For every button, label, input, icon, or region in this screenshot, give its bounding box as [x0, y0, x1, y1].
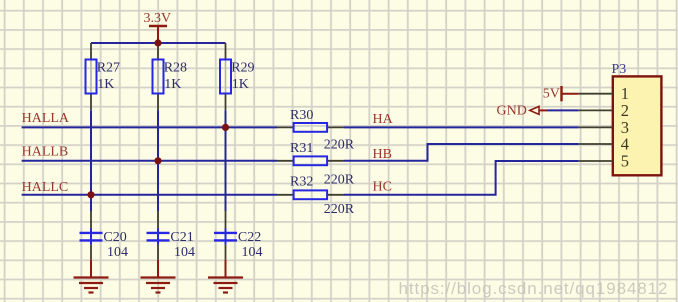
svg-text:HALLC: HALLC — [22, 180, 69, 195]
svg-text:104: 104 — [107, 245, 128, 260]
wire HA — [344, 126, 579, 128]
wire HALLC — [22, 194, 277, 196]
svg-text:P3: P3 — [612, 62, 627, 77]
junction dot HALLA/R29 — [222, 124, 229, 131]
resistor R30 — [277, 108, 355, 153]
svg-text:1K: 1K — [97, 77, 114, 92]
svg-text:220R: 220R — [324, 202, 355, 217]
pin stub 1 — [579, 93, 613, 95]
power label 3.3V — [144, 11, 172, 43]
pin stub 2 — [579, 109, 613, 111]
wire GND to pin2 — [547, 109, 579, 111]
svg-text:R31: R31 — [290, 141, 313, 156]
wire HB — [344, 144, 579, 161]
svg-text:104: 104 — [174, 245, 195, 260]
resistor R27 — [86, 43, 121, 110]
svg-text:C22: C22 — [238, 230, 261, 245]
svg-text:HA: HA — [373, 112, 394, 127]
junction dot HALLB/R28 — [154, 157, 161, 164]
svg-text:HALLB: HALLB — [22, 145, 69, 160]
power symbol GND arrow — [497, 104, 548, 119]
svg-text:5: 5 — [621, 152, 629, 171]
pin stub 3 — [579, 126, 613, 128]
wire HALLB — [22, 160, 277, 162]
wire column R29 — [225, 110, 227, 211]
junction dot HALLC/R27 — [87, 191, 94, 198]
wire HC — [344, 161, 579, 195]
svg-text:C20: C20 — [103, 230, 126, 245]
wire column R27 — [90, 110, 92, 211]
pin stub 5 — [579, 160, 613, 162]
svg-text:1K: 1K — [232, 77, 249, 92]
capacitor C22 — [214, 211, 263, 260]
ground C20 — [74, 260, 109, 293]
resistor R28 — [153, 47, 188, 111]
capacitor C21 — [147, 211, 196, 260]
ground C22 — [208, 260, 243, 293]
svg-text:R30: R30 — [290, 108, 313, 123]
svg-text:HC: HC — [373, 179, 392, 194]
svg-text:GND: GND — [497, 104, 527, 119]
svg-text:5V: 5V — [543, 86, 560, 101]
svg-text:R32: R32 — [290, 175, 313, 190]
svg-text:1K: 1K — [164, 77, 181, 92]
svg-text:HB: HB — [373, 147, 392, 162]
svg-text:C21: C21 — [170, 230, 193, 245]
pin stub 4 — [579, 143, 613, 145]
svg-text:220R: 220R — [324, 172, 355, 187]
svg-text:220R: 220R — [324, 137, 355, 152]
power label 5V — [543, 86, 579, 101]
wire column R28 — [157, 110, 159, 211]
ground C21 — [141, 260, 176, 293]
svg-text:3.3V: 3.3V — [144, 11, 172, 26]
connector P3 — [612, 62, 662, 176]
wire HALLA — [22, 126, 277, 128]
wire top bus — [91, 42, 226, 44]
resistor R29 — [220, 43, 255, 110]
svg-text:R29: R29 — [231, 60, 254, 75]
resistor R31 — [277, 141, 355, 187]
svg-text:R27: R27 — [97, 60, 120, 75]
junction dot 3.3V bus — [154, 39, 161, 46]
svg-text:104: 104 — [242, 245, 263, 260]
resistor R32 — [277, 175, 355, 218]
capacitor C20 — [80, 211, 129, 260]
svg-text:R28: R28 — [164, 60, 187, 75]
svg-text:HALLA: HALLA — [22, 111, 70, 126]
svg-text:https://blog.csdn.net/qq198481: https://blog.csdn.net/qq1984812 — [399, 279, 669, 298]
